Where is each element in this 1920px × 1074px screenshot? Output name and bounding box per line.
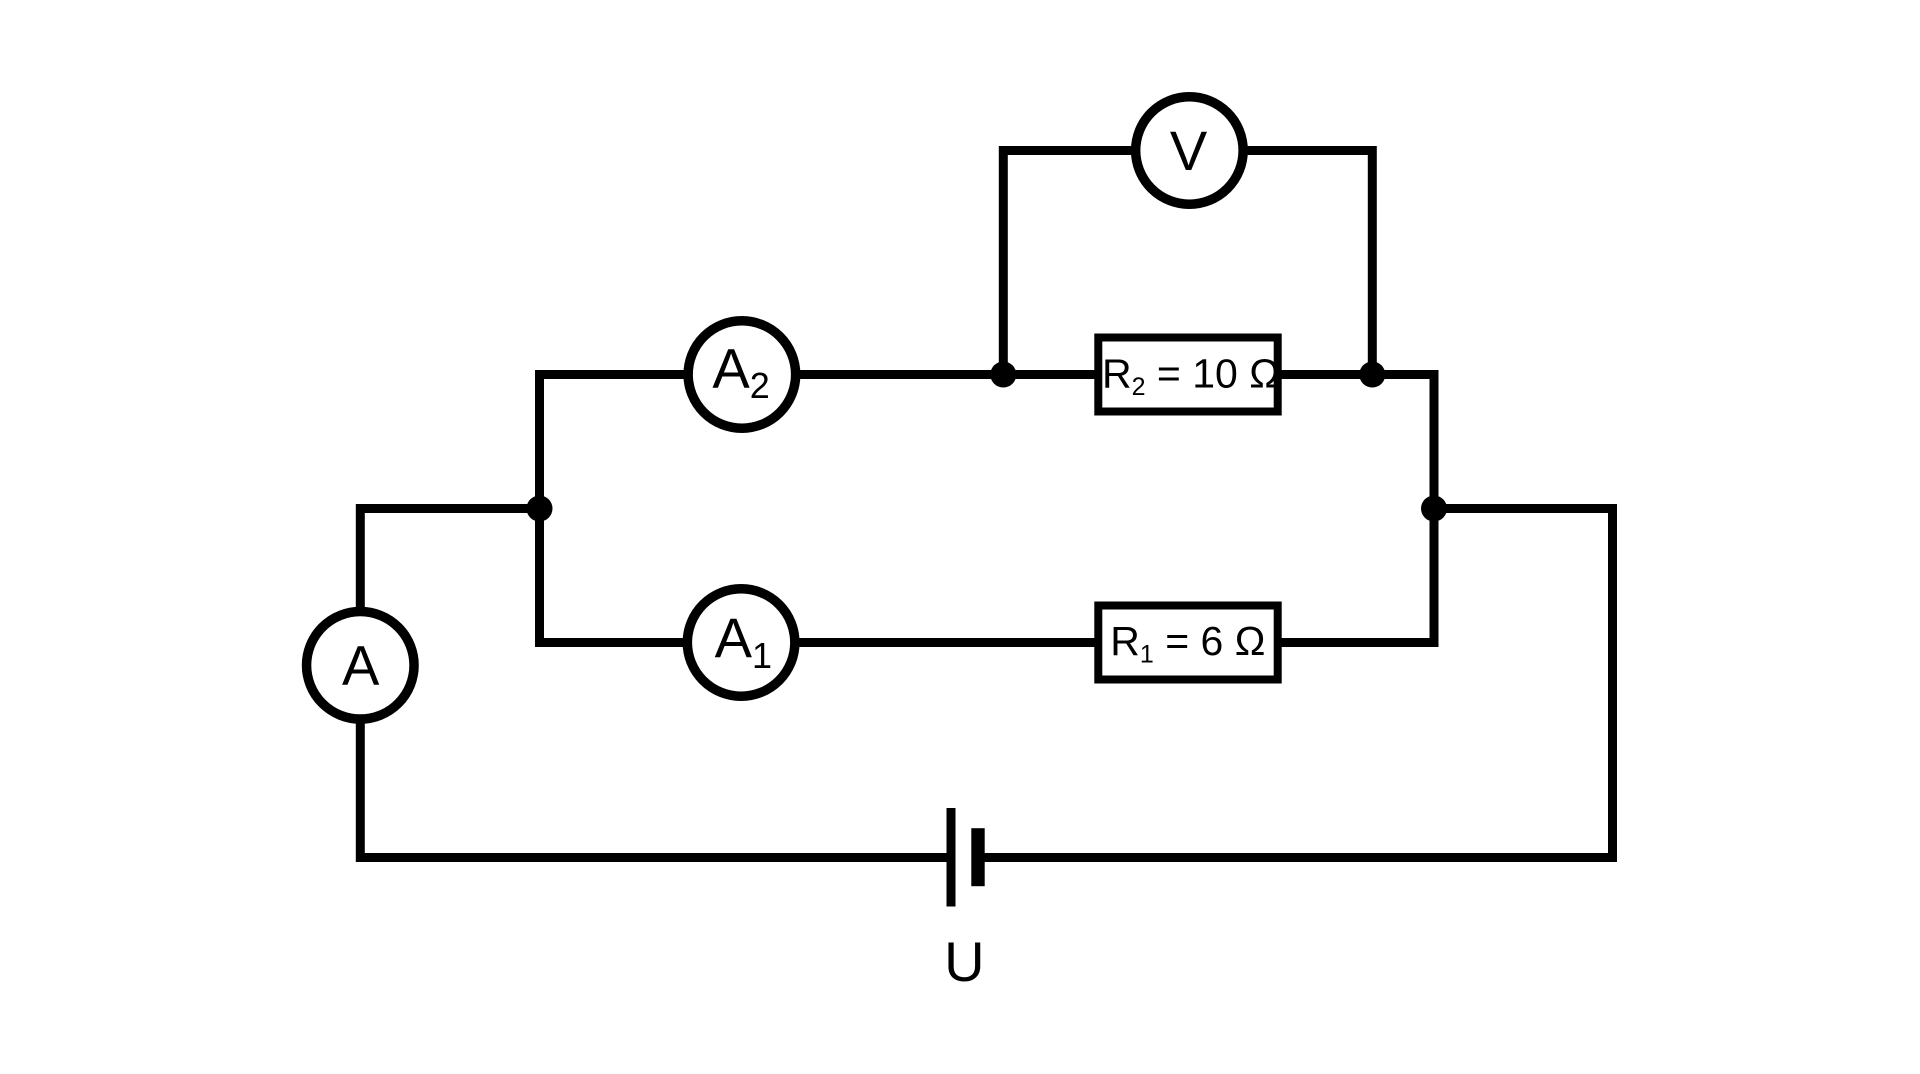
- wire: parallel branch rectangle (A2/R2 line, left column, A1/R1 line, right column): [540, 375, 1435, 643]
- svg-text:R1 = 6 Ω: R1 = 6 Ω: [1110, 618, 1265, 669]
- wire: V loop (left vertical, top horizontal, right vertical): [1003, 151, 1372, 375]
- resistor R1 box: [1098, 606, 1277, 680]
- battery U short thick plate: [971, 828, 984, 886]
- svg-text:R2 = 10 Ω: R2 = 10 Ω: [1102, 350, 1280, 401]
- wire: left feed (junction to corner, down through ammeter A, bottom left run): [360, 509, 951, 858]
- node: right branch junction: [1421, 496, 1447, 522]
- ammeter A circle: [307, 612, 415, 720]
- svg-text:U: U: [944, 930, 984, 993]
- ammeter A1 circle: [687, 589, 795, 697]
- voltmeter V circle: [1136, 97, 1244, 205]
- resistor R2 box: [1098, 338, 1277, 412]
- svg-text:V: V: [1170, 119, 1208, 182]
- wire: right feed (junction to corner, down right side, bottom right run): [978, 509, 1613, 858]
- node: V tap right junction: [1359, 362, 1385, 388]
- node: left branch junction: [527, 496, 553, 522]
- node: V tap left junction: [990, 362, 1016, 388]
- svg-text:A: A: [342, 634, 380, 697]
- ammeter A2 circle: [688, 321, 796, 429]
- battery U long plate: [947, 808, 956, 907]
